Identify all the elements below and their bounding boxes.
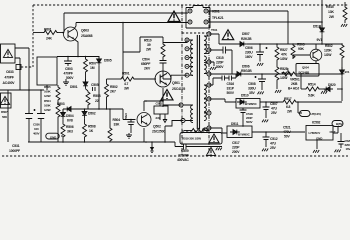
svg-text:C536: C536 [33, 123, 40, 127]
svg-text:C502: C502 [124, 113, 128, 120]
svg-text:2KV: 2KV [144, 67, 151, 71]
svg-text:D507: D507 [242, 32, 250, 36]
svg-text:6.8: 6.8 [286, 105, 291, 109]
svg-text:D503: D503 [57, 102, 65, 106]
svg-text:R517: R517 [284, 97, 292, 101]
svg-text:22: 22 [95, 99, 99, 103]
svg-text:C531: C531 [12, 144, 20, 148]
svg-text:25V: 25V [271, 111, 277, 115]
svg-text:R545: R545 [326, 5, 334, 9]
svg-text:1/2W: 1/2W [44, 94, 51, 98]
svg-text:B(5V): B(5V) [336, 122, 343, 126]
svg-text:R502: R502 [110, 85, 118, 89]
svg-text:25V: 25V [270, 146, 276, 150]
svg-text:90K: 90K [298, 47, 304, 51]
svg-text:4.7: 4.7 [124, 82, 129, 86]
svg-text:230U: 230U [245, 51, 253, 55]
svg-text:9V1: 9V1 [317, 38, 323, 42]
svg-text:C512: C512 [270, 137, 278, 141]
svg-text:9V1: 9V1 [345, 70, 350, 74]
svg-text:R502: R502 [325, 44, 333, 48]
svg-text:VR501: VR501 [290, 78, 300, 82]
svg-text:BYW95C: BYW95C [245, 102, 258, 106]
svg-text:GND: GND [50, 136, 57, 140]
svg-text:16V: 16V [346, 147, 350, 151]
svg-text:R519 300 1/2W: R519 300 1/2W [182, 137, 201, 141]
svg-text:C517: C517 [232, 141, 240, 145]
svg-text:R2K2B: R2K2B [241, 37, 252, 41]
svg-text:BYW95C: BYW95C [238, 133, 251, 137]
svg-text:500V: 500V [66, 76, 74, 80]
svg-text:R508: R508 [88, 125, 96, 129]
svg-text:2200PF: 2200PF [178, 154, 189, 158]
svg-text:13K: 13K [328, 10, 334, 14]
svg-text:R504: R504 [44, 99, 51, 103]
svg-text:C633: C633 [6, 70, 14, 74]
svg-text:1/2W: 1/2W [280, 57, 288, 61]
svg-text:R601: R601 [44, 28, 52, 32]
svg-text:C508: C508 [248, 82, 256, 86]
svg-text:2KB: 2KB [291, 82, 298, 86]
svg-text:C505: C505 [91, 83, 99, 87]
svg-text:L7805CV: L7805CV [309, 131, 321, 135]
svg-text:D520: D520 [328, 83, 336, 87]
svg-text:22K: 22K [281, 72, 287, 76]
svg-text:2SC2500: 2SC2500 [152, 130, 165, 134]
svg-text:R510: R510 [144, 39, 152, 43]
svg-text:BC548B: BC548B [299, 71, 311, 75]
svg-text:HT(12V): HT(12V) [311, 112, 321, 116]
svg-text:Q504: Q504 [302, 66, 309, 70]
svg-text:2K7: 2K7 [110, 90, 116, 94]
svg-text:C509: C509 [181, 149, 189, 153]
svg-text:330U: 330U [248, 87, 256, 91]
svg-text:T501: T501 [211, 28, 218, 32]
svg-text:47U: 47U [270, 142, 276, 146]
svg-text:120K: 120K [324, 49, 332, 53]
svg-text:C507: C507 [270, 102, 278, 106]
svg-text:470PF: 470PF [64, 72, 73, 76]
svg-text:470PF: 470PF [5, 76, 14, 80]
svg-text:47U: 47U [271, 107, 277, 111]
svg-text:160V: 160V [245, 55, 253, 59]
svg-text:Q501: Q501 [172, 81, 180, 85]
svg-text:200V: 200V [232, 150, 240, 154]
svg-text:C504: C504 [142, 58, 150, 62]
svg-text:IC502: IC502 [312, 121, 321, 125]
svg-text:39: 39 [147, 43, 151, 47]
svg-text:470U: 470U [283, 130, 291, 134]
svg-text:R507: R507 [89, 62, 97, 66]
svg-text:R505: R505 [44, 85, 51, 89]
svg-text:2SC4125: 2SC4125 [172, 87, 185, 91]
svg-text:TFLK21: TFLK21 [212, 16, 224, 20]
svg-text:24K: 24K [46, 37, 52, 41]
svg-text:R5G2B: R5G2B [241, 69, 252, 73]
svg-text:Q502: Q502 [153, 125, 161, 129]
svg-text:R503: R503 [93, 94, 101, 98]
svg-text:D511: D511 [231, 122, 239, 126]
svg-text:OUT: OUT [330, 130, 336, 134]
svg-text:500V: 500V [227, 91, 235, 95]
svg-text:47K: 47K [281, 53, 287, 57]
svg-text:D502: D502 [88, 112, 96, 116]
svg-text:R51B: R51B [202, 128, 210, 132]
svg-text:680PF: 680PF [141, 62, 150, 66]
svg-text:400V: 400V [33, 132, 40, 136]
svg-text:220P: 220P [216, 61, 224, 65]
svg-text:AC400V: AC400V [3, 81, 16, 85]
svg-text:1/2W: 1/2W [280, 76, 288, 80]
svg-text:C506: C506 [245, 46, 253, 50]
svg-text:1000PF: 1000PF [9, 149, 20, 153]
svg-text:D501: D501 [70, 85, 78, 89]
svg-text:R503: R503 [297, 43, 305, 47]
svg-text:R607: R607 [1, 110, 8, 114]
svg-text:R514: R514 [308, 83, 316, 87]
svg-text:Q603: Q603 [81, 29, 89, 33]
svg-text:500V: 500V [216, 65, 224, 69]
svg-text:1M: 1M [90, 66, 95, 70]
svg-text:D51B: D51B [313, 25, 322, 29]
svg-text:500V: 500V [246, 120, 253, 124]
svg-text:50V: 50V [284, 135, 290, 139]
svg-text:331P: 331P [227, 87, 235, 91]
svg-text:D506: D506 [242, 65, 250, 69]
svg-text:B+ ADJ: B+ ADJ [288, 87, 299, 91]
svg-text:R528: R528 [280, 67, 288, 71]
svg-text:1/2W: 1/2W [44, 108, 51, 112]
svg-text:100K: 100K [44, 90, 52, 94]
svg-text:2SA668: 2SA668 [81, 34, 93, 38]
svg-text:100: 100 [34, 127, 39, 131]
svg-text:R504: R504 [113, 118, 121, 122]
svg-text:400VAC: 400VAC [177, 158, 189, 162]
svg-text:R501: R501 [122, 72, 130, 76]
svg-text:K501: K501 [212, 10, 220, 14]
svg-text:C503: C503 [65, 67, 73, 71]
svg-text:35V: 35V [249, 91, 255, 95]
svg-text:C521: C521 [283, 126, 291, 130]
svg-text:R506: R506 [66, 125, 74, 129]
svg-text:D510: D510 [241, 94, 249, 98]
svg-text:D504: D504 [66, 114, 74, 118]
svg-text:3K3: 3K3 [67, 130, 73, 134]
svg-text:GND: GND [316, 136, 323, 140]
svg-text:C515: C515 [216, 56, 224, 60]
svg-text:100K: 100K [44, 104, 52, 108]
svg-text:6V8: 6V8 [67, 119, 73, 123]
svg-text:1K: 1K [89, 129, 94, 133]
svg-text:C501: C501 [156, 102, 163, 106]
svg-text:1/2W: 1/2W [324, 53, 332, 57]
svg-text:5.6K: 5.6K [308, 94, 315, 98]
svg-text:220P: 220P [232, 146, 240, 150]
svg-text:33K: 33K [114, 123, 120, 127]
svg-text:C516: C516 [227, 82, 235, 86]
svg-text:D505: D505 [104, 59, 112, 63]
svg-text:R527: R527 [280, 48, 288, 52]
svg-text:.033: .033 [155, 116, 161, 120]
